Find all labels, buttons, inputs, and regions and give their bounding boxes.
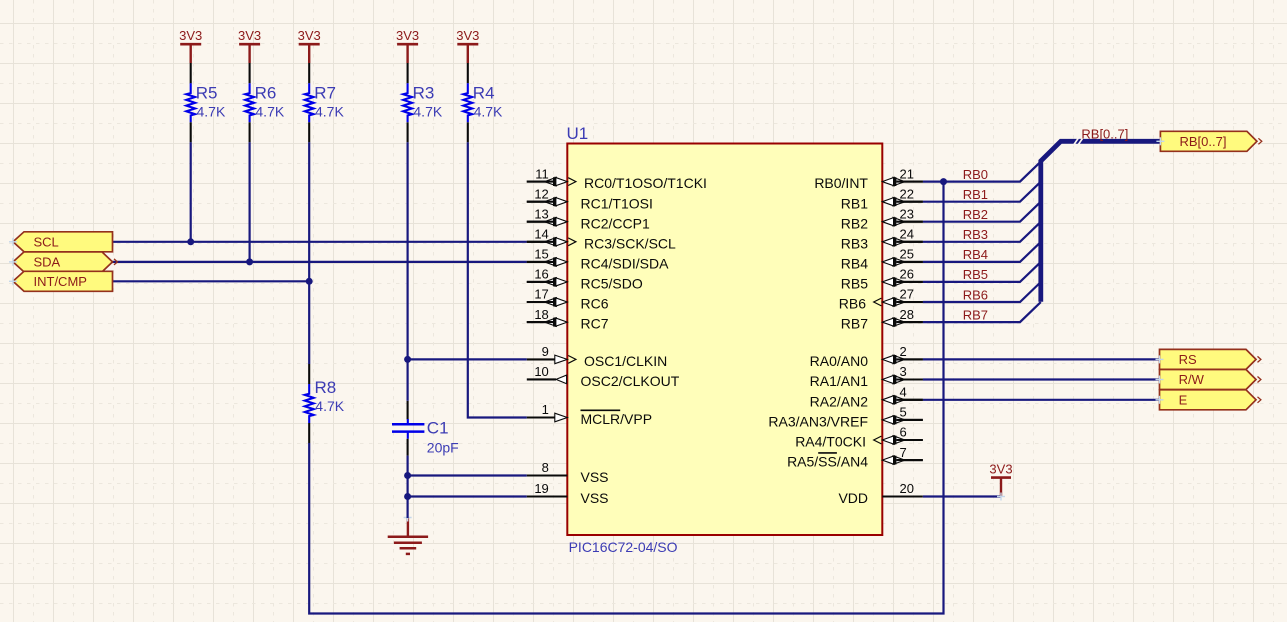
- port E: [1156, 390, 1261, 410]
- pin 7 RA5/SS/AN4: [787, 445, 923, 470]
- svg-text:RA5/SS/AN4: RA5/SS/AN4: [787, 454, 868, 470]
- svg-text:C1: C1: [427, 419, 449, 438]
- svg-text:4.7K: 4.7K: [315, 398, 344, 414]
- svg-text:RB2: RB2: [841, 215, 868, 231]
- svg-text:SCL: SCL: [34, 235, 59, 250]
- wire RB5 net: pin to bus entry: [923, 262, 1041, 282]
- wire OSC1 net down to C1: [407, 359, 409, 400]
- pin 26 RB5: [841, 267, 923, 292]
- pin 24 RB3: [841, 227, 923, 252]
- svg-text:26: 26: [900, 267, 914, 282]
- svg-text:25: 25: [900, 247, 914, 262]
- svg-text:20: 20: [900, 481, 914, 496]
- svg-text:RB[0..7]: RB[0..7]: [1180, 134, 1227, 149]
- pin 23 RB2: [841, 206, 923, 231]
- pin 5 RA3/AN3/VREF: [768, 405, 922, 430]
- wire INT/CMP net down to R8: [308, 281, 310, 364]
- svg-text:10: 10: [534, 364, 548, 379]
- wire RB0 net: pin to bus entry: [923, 162, 1041, 182]
- resistor R4: [463, 83, 503, 122]
- junction INT/R7/R8: [306, 278, 313, 285]
- svg-text:4.7K: 4.7K: [315, 103, 344, 119]
- svg-text:18: 18: [534, 307, 548, 322]
- svg-text:12: 12: [534, 186, 548, 201]
- svg-text:RB[0..7]: RB[0..7]: [1081, 126, 1128, 141]
- svg-text:4.7K: 4.7K: [255, 103, 284, 119]
- junction SCL/R5: [187, 238, 194, 245]
- svg-text:RA3/AN3/VREF: RA3/AN3/VREF: [768, 414, 868, 430]
- svg-text:20pF: 20pF: [427, 439, 459, 455]
- wire E net: RA2 pin to E port: [923, 399, 1160, 401]
- wire RB1 net: pin to bus entry: [923, 182, 1041, 202]
- svg-text:RC4/SDI/SDA: RC4/SDI/SDA: [581, 256, 670, 272]
- svg-text:R5: R5: [196, 84, 218, 103]
- wire R/W net: RA1 pin to R/W port: [923, 378, 1160, 380]
- svg-text:8: 8: [542, 460, 549, 475]
- component U1 PIC16C72-04/SO body: [567, 144, 882, 536]
- pin of R8 (top lead): [308, 364, 310, 384]
- svg-text:5: 5: [900, 405, 907, 420]
- port SCL: [9, 232, 113, 252]
- capacitor C1 bottom lead: [407, 439, 409, 456]
- pin 9 OSC1/CLKIN: [527, 344, 667, 369]
- svg-text:VDD: VDD: [838, 490, 868, 506]
- pin 11 RC0/T1OSO/T1CKI: [527, 166, 707, 191]
- svg-text:3V3: 3V3: [396, 28, 419, 43]
- pin 8 VSS: [527, 460, 609, 485]
- pin of R3 (top lead): [407, 63, 409, 83]
- svg-text:7: 7: [900, 445, 907, 460]
- pin 14 RC3/SCK/SCL: [527, 227, 676, 252]
- port RS: [1156, 349, 1261, 369]
- svg-text:VSS: VSS: [581, 469, 609, 485]
- svg-text:RC6: RC6: [581, 296, 609, 312]
- resistor R6: [245, 83, 285, 122]
- power 3V3 (above R6): [238, 28, 261, 63]
- pin of R4 (top lead): [467, 63, 469, 83]
- svg-text:RB4: RB4: [963, 247, 988, 262]
- pin 21 RB0/INT: [814, 166, 922, 191]
- svg-text:R6: R6: [255, 84, 277, 103]
- svg-text:27: 27: [900, 287, 914, 302]
- wire R5 bottom to SCL net: [190, 142, 192, 242]
- pin 3 RA1/AN1: [810, 364, 923, 389]
- pin 17 RC6: [527, 287, 609, 312]
- svg-text:3V3: 3V3: [298, 28, 321, 43]
- pin 19 VSS: [527, 481, 609, 506]
- wire C1 bottom to VSS net: [407, 456, 409, 476]
- svg-text:OSC2/CLKOUT: OSC2/CLKOUT: [581, 373, 680, 389]
- wire VSS net to pin 19: [408, 495, 527, 497]
- svg-text:RB6: RB6: [963, 287, 988, 302]
- pin 28 RB7: [841, 307, 923, 332]
- svg-text:4.7K: 4.7K: [197, 103, 226, 119]
- pin 25 RB4: [841, 247, 923, 272]
- pin of R6 (bottom lead): [249, 122, 251, 142]
- svg-text:RB1: RB1: [841, 195, 868, 211]
- svg-text:4: 4: [900, 385, 907, 400]
- wire OSC1 net to pin 9: [408, 358, 527, 360]
- resistor R7: [305, 83, 345, 122]
- svg-text:RB7: RB7: [841, 316, 868, 332]
- wire RB4 net: pin to bus entry: [923, 242, 1041, 262]
- svg-text:19: 19: [534, 481, 548, 496]
- pin 15 RC4/SDI/SDA: [527, 247, 669, 272]
- resistor R8: [305, 378, 345, 423]
- svg-text:RB5: RB5: [963, 267, 988, 282]
- svg-text:RA1/AN1: RA1/AN1: [810, 373, 869, 389]
- pin of R4 (bottom lead): [467, 122, 469, 142]
- svg-text:14: 14: [534, 227, 548, 242]
- svg-text:RB4: RB4: [841, 256, 868, 272]
- wire SCL net: port to RC3 pin: [113, 241, 527, 243]
- svg-text:RC3/SCK/SCL: RC3/SCK/SCL: [584, 235, 676, 251]
- ground: [388, 514, 428, 554]
- svg-text:RC7: RC7: [581, 316, 609, 332]
- svg-text:3V3: 3V3: [456, 28, 479, 43]
- pin 13 RC2/CCP1: [527, 206, 650, 231]
- svg-text:RB3: RB3: [963, 227, 988, 242]
- svg-text:11: 11: [535, 166, 549, 181]
- wire R7 bottom to INT/CMP net: [308, 142, 310, 281]
- power 3V3 (above R3): [396, 28, 419, 63]
- pin of R5 (bottom lead): [190, 122, 192, 142]
- wire VSS net down: [407, 476, 409, 497]
- pin 18 RC7: [527, 307, 609, 332]
- svg-text:RA0/AN0: RA0/AN0: [810, 353, 869, 369]
- power 3V3 (VDD): [989, 461, 1012, 500]
- svg-text:6: 6: [900, 425, 907, 440]
- svg-text:3V3: 3V3: [989, 461, 1012, 476]
- svg-text:21: 21: [900, 166, 914, 181]
- svg-text:RC5/SDO: RC5/SDO: [581, 276, 643, 292]
- wire R3 bottom to OSC1 net: [407, 142, 409, 359]
- wire R6 bottom to SDA net: [249, 142, 251, 262]
- svg-text:3V3: 3V3: [238, 28, 261, 43]
- resistor R5: [186, 83, 226, 122]
- svg-text:INT/CMP: INT/CMP: [34, 274, 87, 289]
- pin of R7 (top lead): [308, 63, 310, 83]
- junction SDA/R6: [246, 258, 253, 265]
- wire INT/CMP net: port to R8 column: [113, 280, 310, 282]
- svg-text:16: 16: [534, 267, 548, 282]
- svg-text:R8: R8: [315, 378, 337, 397]
- bus RB[0..7]: [1041, 141, 1161, 301]
- svg-text:SDA: SDA: [34, 255, 61, 270]
- svg-text:RB1: RB1: [963, 187, 988, 202]
- svg-text:PIC16C72-04/SO: PIC16C72-04/SO: [569, 539, 678, 555]
- power 3V3 (above R4): [456, 28, 479, 63]
- svg-text:U1: U1: [567, 124, 589, 143]
- pin 16 RC5/SDO: [527, 267, 643, 292]
- svg-text:RB0: RB0: [963, 167, 988, 182]
- wire VDD pin to 3V3: [923, 495, 1001, 497]
- svg-text:RB5: RB5: [841, 276, 868, 292]
- svg-text:28: 28: [900, 307, 914, 322]
- svg-text:4.7K: 4.7K: [474, 103, 503, 119]
- svg-text:2: 2: [900, 344, 907, 359]
- wire RS net: RA0 pin to RS port: [923, 358, 1160, 360]
- svg-text:E: E: [1179, 393, 1188, 408]
- pin 12 RC1/T1OSI: [527, 186, 653, 211]
- svg-text:3V3: 3V3: [179, 28, 202, 43]
- junction VSS pin8: [404, 472, 411, 479]
- svg-text:RC2/CCP1: RC2/CCP1: [581, 215, 650, 231]
- bus net label anchor ticks: [1073, 138, 1082, 145]
- svg-text:RB2: RB2: [963, 207, 988, 222]
- svg-text:4.7K: 4.7K: [413, 103, 442, 119]
- svg-text:3: 3: [900, 364, 907, 379]
- pin of R3 (bottom lead): [407, 122, 409, 142]
- junction RB0/INT junction: [940, 178, 947, 185]
- capacitor C1: [392, 419, 459, 456]
- pin of R5 (top lead): [190, 63, 192, 83]
- svg-text:R4: R4: [473, 84, 495, 103]
- svg-text:RB6: RB6: [839, 296, 866, 312]
- port INT/CMP: [9, 271, 113, 291]
- svg-text:RA2/AN2: RA2/AN2: [810, 393, 869, 409]
- pin of R7 (bottom lead): [308, 122, 310, 142]
- svg-text:RC0/T1OSO/T1CKI: RC0/T1OSO/T1CKI: [584, 175, 707, 191]
- pin 1 MCLR/VPP: [527, 402, 652, 427]
- svg-text:R3: R3: [413, 84, 435, 103]
- pin 4 RA2/AN2: [810, 385, 923, 410]
- svg-text:RS: RS: [1179, 352, 1197, 367]
- svg-text:22: 22: [900, 186, 914, 201]
- port SDA: [9, 252, 117, 272]
- svg-text:24: 24: [900, 227, 914, 242]
- svg-text:13: 13: [534, 206, 548, 221]
- junction OSC1/R3/C1: [404, 356, 411, 363]
- svg-text:VSS: VSS: [581, 490, 609, 506]
- pin 27 RB6: [839, 287, 923, 312]
- svg-text:R7: R7: [314, 84, 336, 103]
- pin 10 OSC2/CLKOUT: [527, 364, 680, 389]
- svg-text:RA4/T0CKI: RA4/T0CKI: [795, 434, 866, 450]
- wire VSS net to ground: [407, 497, 409, 519]
- wire VSS net to pin 8: [408, 474, 527, 476]
- wire RB2 net: pin to bus entry: [923, 202, 1041, 222]
- svg-text:1: 1: [542, 402, 549, 417]
- wire R8 bottom around to RB0/INT pin: [309, 182, 943, 614]
- pin of R6 (top lead): [249, 63, 251, 83]
- junction VSS pin19: [404, 493, 411, 500]
- wire RB7 net: pin to bus entry: [923, 302, 1041, 322]
- pin 20 VDD: [838, 481, 922, 506]
- wire RB6 net: pin to bus entry: [923, 282, 1041, 302]
- svg-text:15: 15: [534, 247, 548, 262]
- svg-text:RC1/T1OSI: RC1/T1OSI: [581, 195, 653, 211]
- power 3V3 (above R7): [298, 28, 321, 63]
- power 3V3 (above R5): [179, 28, 202, 63]
- pin of R8 (bottom lead): [308, 423, 310, 443]
- wire SDA net: port to RC4 pin: [113, 261, 527, 263]
- capacitor C1 top lead: [407, 401, 409, 420]
- wire R4 bottom to MCLR pin: [468, 142, 527, 417]
- svg-text:RB3: RB3: [841, 235, 868, 251]
- svg-text:23: 23: [900, 206, 914, 221]
- pin 22 RB1: [841, 186, 923, 211]
- port R/W: [1156, 370, 1261, 390]
- wire RB3 net: pin to bus entry: [923, 222, 1041, 242]
- pin 6 RA4/T0CKI: [795, 425, 923, 450]
- svg-text:17: 17: [534, 287, 548, 302]
- svg-text:RB0/INT: RB0/INT: [814, 175, 868, 191]
- svg-text:RB7: RB7: [963, 307, 988, 322]
- port RB[0..7]: [1156, 131, 1261, 151]
- svg-text:MCLR/VPP: MCLR/VPP: [581, 411, 653, 427]
- resistor R3: [403, 83, 443, 122]
- svg-text:R/W: R/W: [1179, 372, 1205, 387]
- svg-text:9: 9: [542, 344, 549, 359]
- svg-text:OSC1/CLKIN: OSC1/CLKIN: [584, 353, 667, 369]
- pin 2 RA0/AN0: [810, 344, 923, 369]
